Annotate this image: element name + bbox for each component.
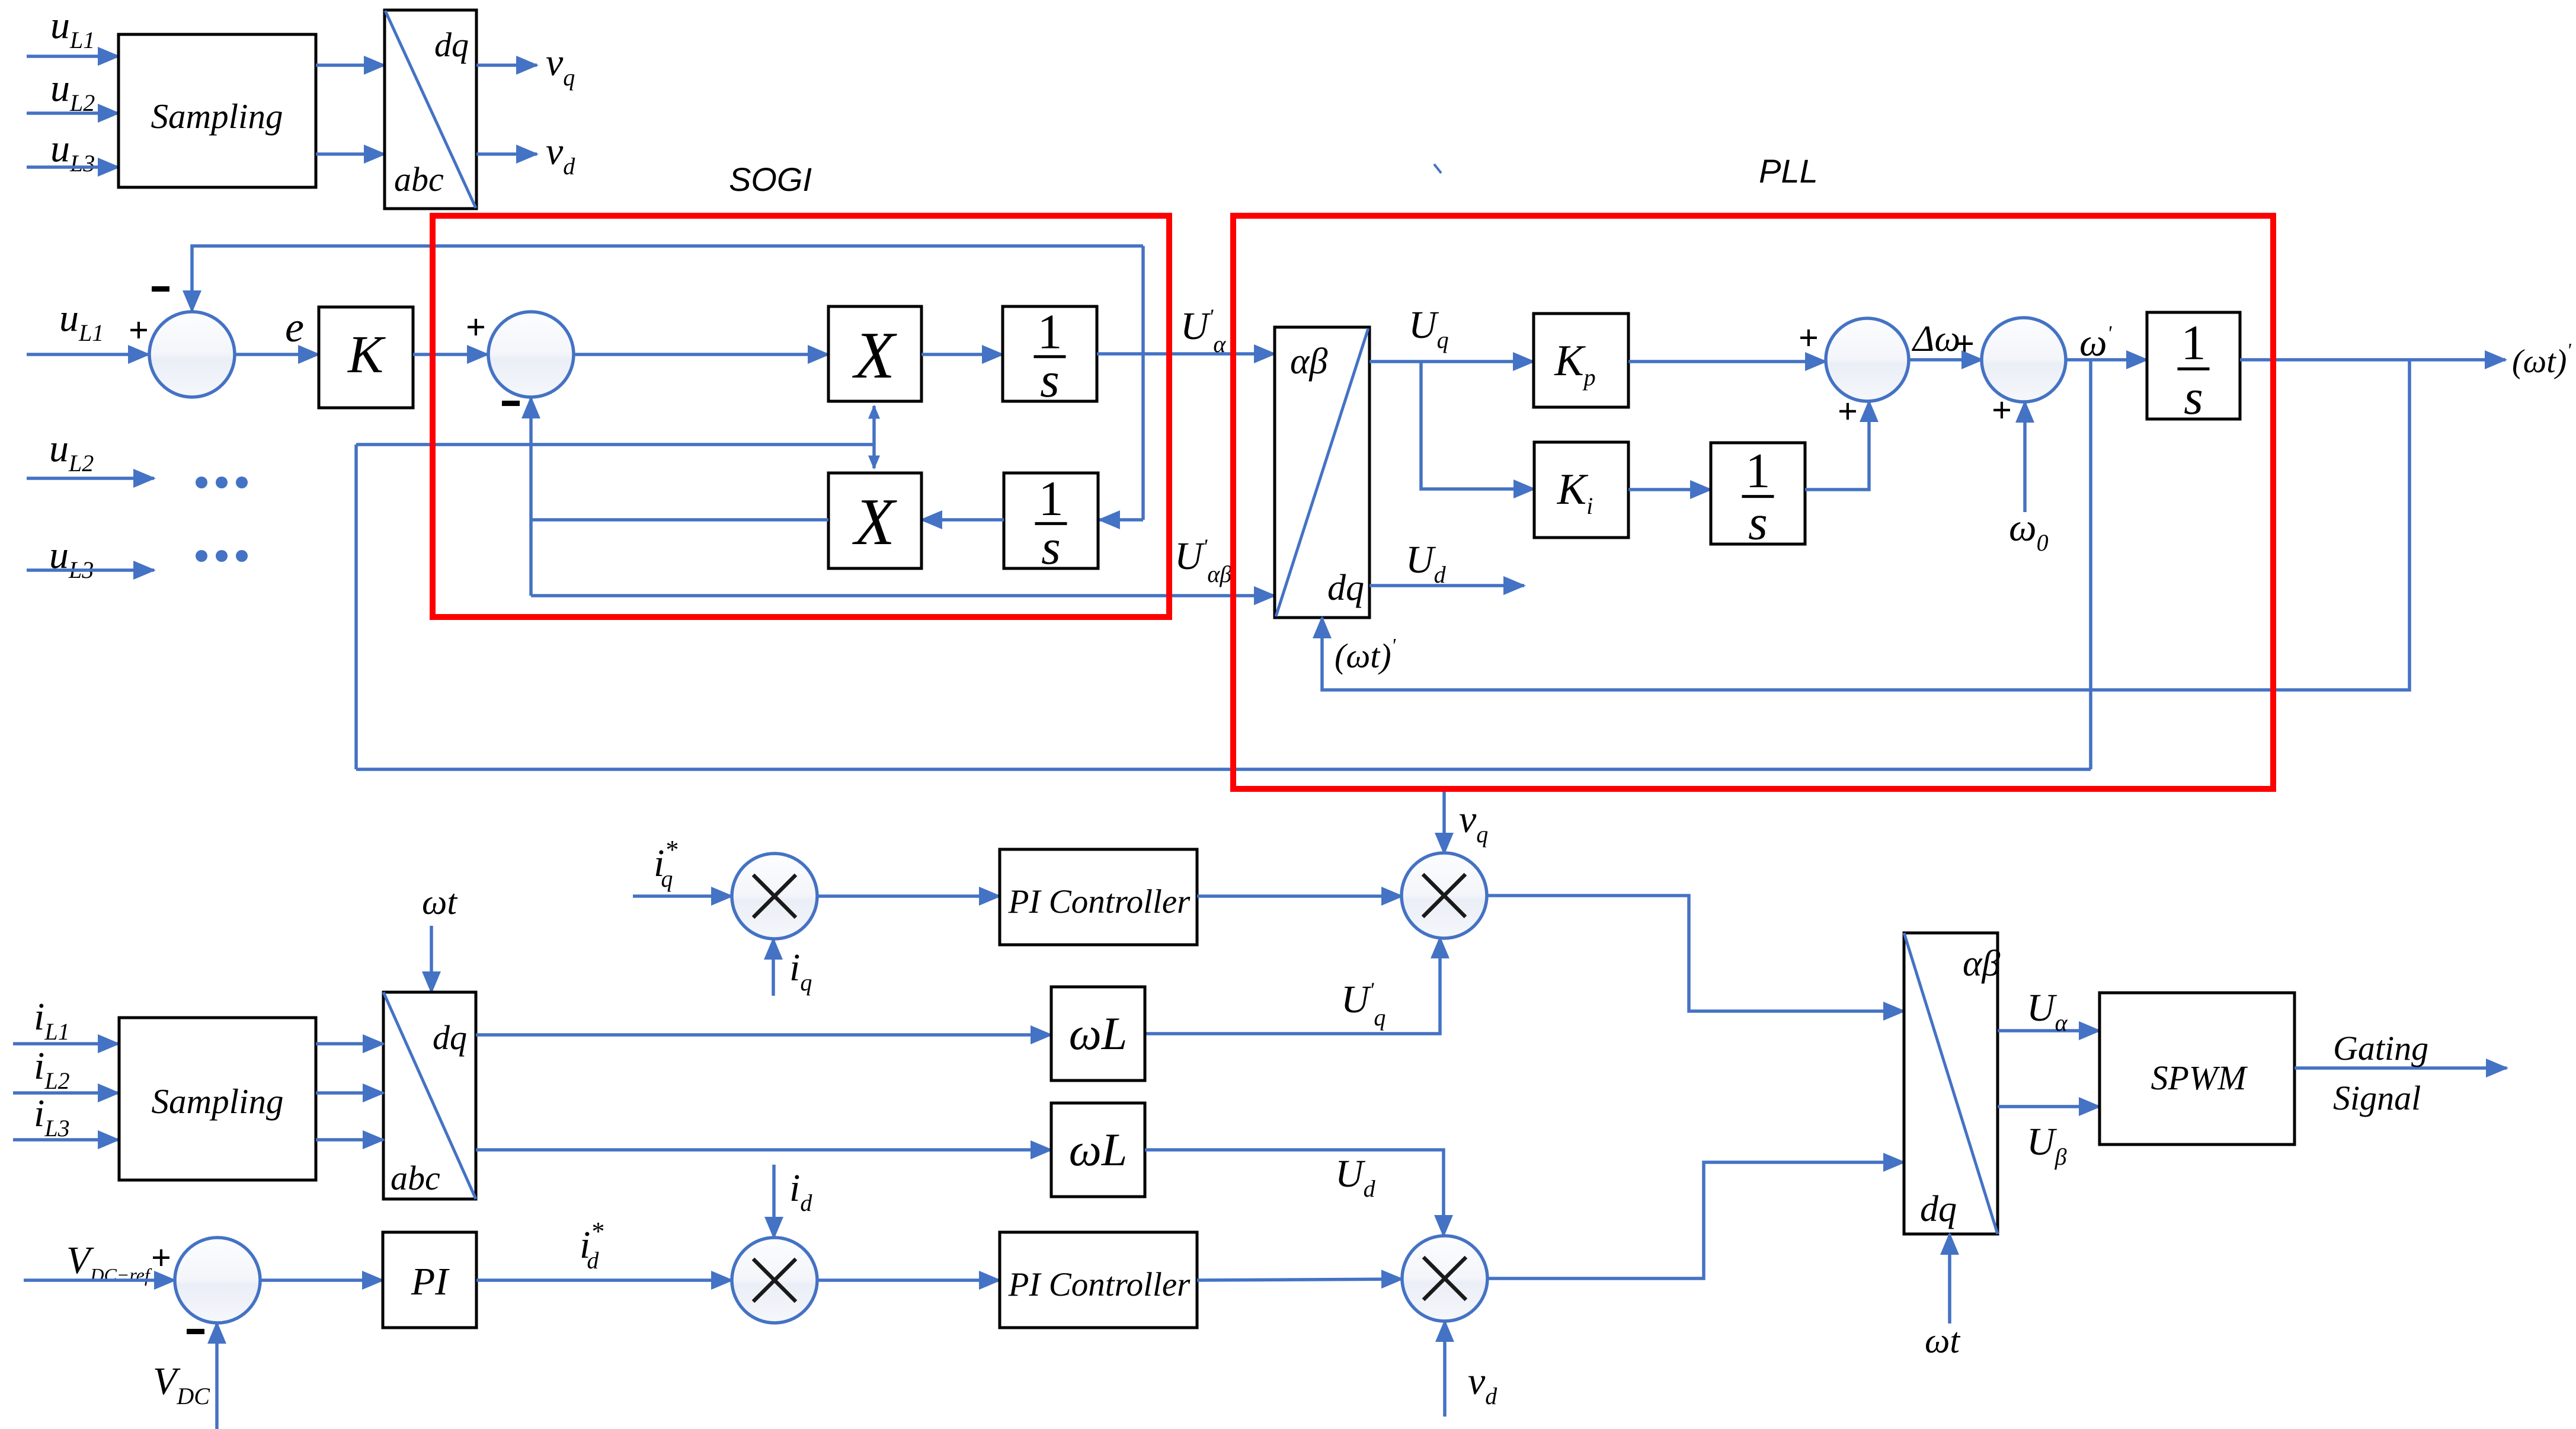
svg-text:+: + <box>1799 318 1819 357</box>
wire i_L1 into Sampling 2 <box>13 1042 119 1046</box>
wire K to S2 <box>413 353 488 356</box>
summing junction S2 (SOGI) <box>488 312 574 397</box>
block Sampling (voltage) <box>119 34 316 187</box>
wire P2 to integrator out <box>2066 358 2147 362</box>
ellipsis dots for u_L3 channel <box>196 550 207 562</box>
wire omega-prime up into X1 <box>872 406 876 445</box>
svg-text:abc: abc <box>391 1159 440 1197</box>
wire v_d up into M3 <box>1443 1321 1447 1417</box>
wire i_d down into M4 <box>772 1165 776 1238</box>
multiplier M3 (v_d) <box>1402 1236 1487 1321</box>
wire angle output <box>2240 358 2505 362</box>
wire i_q axis to omegaL1 <box>476 1033 1051 1037</box>
wire M2 output to inverse transform <box>1486 896 1904 1011</box>
wire Sampling2 to transform c <box>316 1138 383 1142</box>
wire V sum to PI <box>260 1278 383 1282</box>
svg-text:+: + <box>466 308 486 347</box>
wire u_L3 stub <box>27 568 154 572</box>
summing junction P1 (Kp+Ki/s) <box>1826 318 1909 401</box>
svg-text:(ωt)': (ωt)' <box>2512 340 2571 380</box>
wire Gating Signal output <box>2295 1066 2507 1070</box>
wire U_alphabeta feedback up into S2 <box>529 398 533 596</box>
svg-text:ωL: ωL <box>1069 1124 1127 1175</box>
svg-text:e: e <box>285 303 304 351</box>
wire Ki to integrator <box>1628 488 1711 491</box>
svg-text:K: K <box>347 325 386 384</box>
wire Sampling2 to transform a <box>316 1042 383 1046</box>
wire u_L3 into Sampling <box>27 165 119 169</box>
wire u_L1 into Sampling <box>27 55 119 58</box>
block abc-dq transform (current) <box>383 992 476 1199</box>
wire Sampling2 to transform b <box>316 1091 383 1095</box>
block abc-dq transform (top) <box>385 10 476 209</box>
wire omega-prime into SOGI multipliers <box>356 443 874 446</box>
wire Sampling to abc-dq (upper) <box>316 63 385 67</box>
svg-text:s: s <box>1040 353 1060 408</box>
wire U_beta into SPWM <box>1998 1105 2100 1108</box>
wire omega-t into abc-dq (current) <box>430 926 433 992</box>
block PI Controller (d axis) <box>1000 1232 1197 1328</box>
wire U_alpha to PLL alphabeta-dq <box>1097 352 1275 356</box>
red frame SOGI <box>433 216 1169 617</box>
block dq-alphabeta inverse transform <box>1904 933 1998 1234</box>
wire i_q star into M1 <box>633 894 732 898</box>
svg-text:αβ: αβ <box>1963 944 2001 984</box>
block PI <box>383 1232 476 1328</box>
svg-text:1: 1 <box>2181 315 2206 370</box>
wire omega-prime down into X2 <box>872 445 876 468</box>
wire omega-prime long feedback <box>356 768 2091 771</box>
wire feedback vertical from U_alpha <box>1141 246 1145 520</box>
wire U_alpha feedback to S1 <box>192 246 1143 311</box>
wire M4 to PI Controller 2 <box>817 1278 1000 1282</box>
block integrator 1/s (PLL PI) <box>1711 443 1805 550</box>
wire Sampling to abc-dq (lower) <box>316 152 385 156</box>
svg-text:dq: dq <box>434 25 469 64</box>
block multiplier X1 <box>828 306 921 401</box>
minus at S2 <box>502 401 520 406</box>
block integrator 1/s (angle) <box>2147 312 2240 425</box>
stray tick mark <box>1434 164 1441 173</box>
wire omega0 into P2 <box>2023 402 2027 512</box>
block alphabeta-dq transform (PLL) <box>1275 327 1369 618</box>
wire M1 to PI Controller 1 <box>817 894 1000 898</box>
wire i_q into M1 <box>772 939 775 996</box>
wire output v_d <box>476 152 537 156</box>
wire V_DC-ref into sum <box>24 1278 175 1282</box>
summing junction S1 (u_L1 - U_alpha) <box>149 312 235 397</box>
svg-text:X: X <box>852 319 898 392</box>
red frame PLL <box>1233 216 2273 789</box>
svg-text:PI Controller: PI Controller <box>1008 883 1191 920</box>
block K <box>319 307 413 408</box>
summing junction P2 (+omega0) <box>1982 318 2066 402</box>
minus at SOGI sum feedback <box>152 286 169 292</box>
block omegaL (d) <box>1051 1103 1145 1197</box>
svg-text:Δω: Δω <box>1911 319 1960 359</box>
wire output U_d (PLL) <box>1369 584 1524 587</box>
diagonal of current transform block <box>383 992 476 1199</box>
block Sampling (current) <box>119 1018 316 1180</box>
svg-text:+: + <box>1954 324 1975 363</box>
wire i_L2 into Sampling 2 <box>13 1091 119 1095</box>
multiplier M1 (i_q) <box>732 853 817 939</box>
svg-text:dq: dq <box>1920 1189 1957 1229</box>
wire PI to M4 (i_d star) <box>476 1278 732 1282</box>
wire omegaL1 U_q' into M2 <box>1145 938 1440 1034</box>
svg-text:dq: dq <box>1327 568 1364 608</box>
wire S1 to K <box>235 353 319 356</box>
svg-text:ωt: ωt <box>422 883 457 922</box>
svg-text:SPWM: SPWM <box>2151 1059 2248 1097</box>
minus at V sum <box>187 1329 204 1334</box>
svg-text:αβ: αβ <box>1290 341 1328 382</box>
wire U_alphabeta to PLL alphabeta-dq <box>531 594 1275 597</box>
svg-text:SOGI: SOGI <box>729 161 812 198</box>
svg-text:1: 1 <box>1038 304 1063 359</box>
svg-text:+: + <box>1992 391 2012 430</box>
svg-text:Gating: Gating <box>2333 1029 2428 1067</box>
svg-text:s: s <box>1041 520 1061 575</box>
svg-text:PI Controller: PI Controller <box>1008 1266 1191 1303</box>
wire X2 output <box>531 518 828 522</box>
wire X1 to integrator 1/s <box>921 353 1003 356</box>
wire u_L2 into Sampling <box>27 111 119 115</box>
multiplier M4 (i_d) <box>732 1238 817 1323</box>
wire PI Controller 2 to M3 <box>1197 1279 1402 1280</box>
wire i_L3 into Sampling 2 <box>13 1138 119 1142</box>
wire PI Controller 1 to M2 <box>1197 894 1402 898</box>
svg-text:PI: PI <box>411 1260 450 1303</box>
wire u_L2 stub <box>27 477 154 480</box>
block Kp <box>1534 314 1628 407</box>
svg-text:Sampling: Sampling <box>152 1082 284 1121</box>
wire v_q down into multiplier M2 <box>1442 790 1446 853</box>
svg-text:(ωt)': (ωt)' <box>1335 635 1396 675</box>
block integrator 1/s (alpha) <box>1003 304 1097 408</box>
block omegaL (q) <box>1051 987 1145 1080</box>
svg-text:s: s <box>2184 370 2203 425</box>
wire Kp to sum P1 <box>1628 360 1826 363</box>
summing junction V_DC <box>175 1238 260 1323</box>
svg-text:ωt: ωt <box>1925 1321 1960 1360</box>
wire into integrator 2 right side <box>1099 518 1143 522</box>
block SPWM <box>2100 993 2295 1145</box>
wire U_q to Kp <box>1369 360 1534 363</box>
svg-text:Signal: Signal <box>2333 1079 2421 1117</box>
wire output v_q <box>476 63 537 67</box>
block integrator 1/s (beta) <box>1004 471 1098 575</box>
wire u_L1 into sum junction <box>27 353 149 356</box>
svg-text:1: 1 <box>1746 443 1771 498</box>
svg-text:s: s <box>1748 495 1768 550</box>
svg-text:X: X <box>852 485 898 559</box>
wire P1 to P2 <box>1909 358 1982 362</box>
wire integrator to sum P1 <box>1805 401 1869 490</box>
wire i_d axis to omegaL2 <box>476 1148 1051 1152</box>
svg-text:ωL: ωL <box>1069 1008 1127 1059</box>
block multiplier X2 <box>828 473 921 568</box>
block PI Controller (q axis) <box>1000 849 1197 945</box>
svg-text:abc: abc <box>394 160 444 199</box>
svg-text:1: 1 <box>1039 471 1064 526</box>
svg-text:+: + <box>129 311 149 350</box>
svg-text:Sampling: Sampling <box>151 97 283 136</box>
block Ki <box>1534 442 1628 538</box>
wire omega-prime vertical (left) <box>354 445 358 769</box>
wire angle feedback into PLL transform <box>1322 360 2409 690</box>
wire omega-prime vertical (right) <box>2089 360 2092 769</box>
wire V_DC into sum <box>215 1323 219 1429</box>
ellipsis dots for u_L2 channel <box>196 477 207 488</box>
svg-text:+: + <box>151 1238 171 1277</box>
diagonal of abc-dq block <box>385 11 476 208</box>
wire S2 to multiplier X1 <box>574 353 828 356</box>
diagonal of PLL transform block <box>1276 328 1368 616</box>
wire omegaL2 U_d into M3 <box>1145 1150 1444 1236</box>
wire U_q branch to Ki <box>1421 362 1534 489</box>
wire U_alpha into SPWM <box>1998 1029 2100 1032</box>
svg-text:PLL: PLL <box>1759 152 1818 190</box>
svg-text:dq: dq <box>433 1018 467 1057</box>
multiplier M2 (v_q) <box>1401 853 1487 938</box>
wire M3 output to inverse transform <box>1487 1162 1904 1278</box>
diagonal of inverse transform block <box>1904 933 1998 1234</box>
wire integrator2 to multiplier X2 <box>921 518 1004 522</box>
wire omega-t into inverse transform <box>1948 1234 1951 1323</box>
